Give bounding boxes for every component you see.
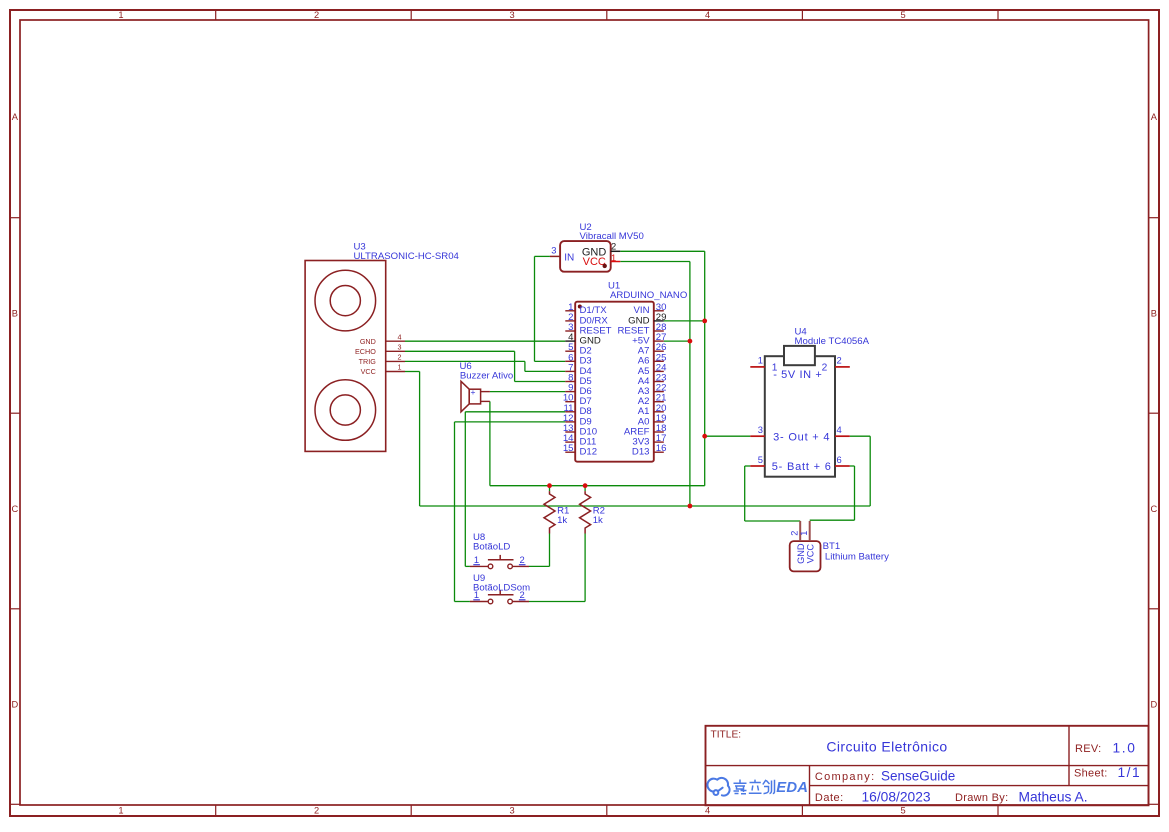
svg-text:Matheus A.: Matheus A. [1019,789,1088,804]
svg-text:6: 6 [837,454,842,465]
svg-text:VCC: VCC [583,256,606,268]
svg-text:ARDUINO_NANO: ARDUINO_NANO [610,290,687,301]
svg-text:1: 1 [474,554,479,565]
svg-text:B: B [1151,309,1157,319]
svg-text:Lithium Battery: Lithium Battery [825,551,889,562]
svg-text:5: 5 [758,454,763,465]
svg-text:1k: 1k [593,515,603,526]
svg-text:1: 1 [611,252,616,263]
svg-text:2: 2 [314,10,319,20]
svg-text:ECHO: ECHO [355,347,376,356]
svg-text:Vibracall MV50: Vibracall MV50 [580,231,644,242]
svg-text:1: 1 [118,10,123,20]
svg-text:B: B [12,309,18,319]
svg-text:A: A [12,112,19,122]
svg-text:C: C [12,504,19,514]
svg-text:Sheet:: Sheet: [1074,768,1108,780]
svg-text:ULTRASONIC-HC-SR04: ULTRASONIC-HC-SR04 [354,251,460,262]
svg-text:3: 3 [551,245,556,256]
svg-text:BotãoLDSom: BotãoLDSom [473,582,530,593]
svg-text:1/1: 1/1 [1118,765,1142,780]
svg-text:Buzzer Ativo: Buzzer Ativo [460,371,513,382]
svg-text:2: 2 [519,554,524,565]
svg-text:2: 2 [789,531,799,536]
svg-text:IN: IN [564,253,574,264]
svg-text:16: 16 [656,443,667,454]
svg-text:4: 4 [837,424,842,435]
svg-text:3: 3 [510,805,515,815]
svg-text:C: C [1150,504,1157,514]
svg-text:EDA: EDA [776,780,808,796]
svg-text:2: 2 [398,353,402,362]
svg-text:4: 4 [705,805,710,815]
svg-text:BotãoLD: BotãoLD [473,542,510,553]
svg-text:4: 4 [398,332,402,341]
svg-text:Drawn By:: Drawn By: [955,792,1008,804]
svg-text:D: D [12,700,19,710]
svg-text:Company:: Company: [815,771,876,783]
svg-text:1: 1 [118,805,123,815]
svg-text:SenseGuide: SenseGuide [881,768,955,783]
svg-text:D12: D12 [580,447,598,458]
svg-text:GND: GND [360,337,376,346]
svg-text:1k: 1k [557,515,567,526]
svg-text:3: 3 [398,343,402,352]
svg-text:Date:: Date: [815,792,844,804]
svg-text:D: D [1150,700,1157,710]
svg-text:2: 2 [314,805,319,815]
svg-text:2: 2 [837,355,842,366]
svg-text:1: 1 [398,363,402,372]
svg-text:5: 5 [901,805,906,815]
svg-text:3: 3 [758,424,763,435]
svg-text:TRIG: TRIG [359,357,377,366]
svg-text:1: 1 [799,531,809,536]
svg-text:Circuito Eletrônico: Circuito Eletrônico [826,739,947,755]
svg-text:1.0: 1.0 [1113,740,1137,755]
svg-text:5: 5 [901,10,906,20]
svg-text:A: A [1151,112,1158,122]
svg-text:+: + [471,387,476,397]
svg-text:5- Batt + 6: 5- Batt + 6 [772,461,832,473]
svg-text:REV:: REV: [1075,743,1101,755]
svg-text:3: 3 [510,10,515,20]
svg-text:2: 2 [822,363,828,374]
svg-text:Module TC4056A: Module TC4056A [795,336,870,347]
svg-text:16/08/2023: 16/08/2023 [862,789,931,804]
svg-text:VCC: VCC [361,367,376,376]
svg-text:15: 15 [563,443,574,454]
svg-text:3- Out + 4: 3- Out + 4 [773,431,830,443]
svg-text:TITLE:: TITLE: [711,730,742,741]
svg-text:VCC: VCC [805,544,815,564]
svg-text:4: 4 [705,10,710,20]
svg-text:D13: D13 [632,447,650,458]
svg-text:2: 2 [611,241,616,252]
svg-text:1: 1 [758,355,763,366]
svg-text:GND: GND [796,543,806,564]
svg-text:- 5V IN +: - 5V IN + [773,369,822,381]
